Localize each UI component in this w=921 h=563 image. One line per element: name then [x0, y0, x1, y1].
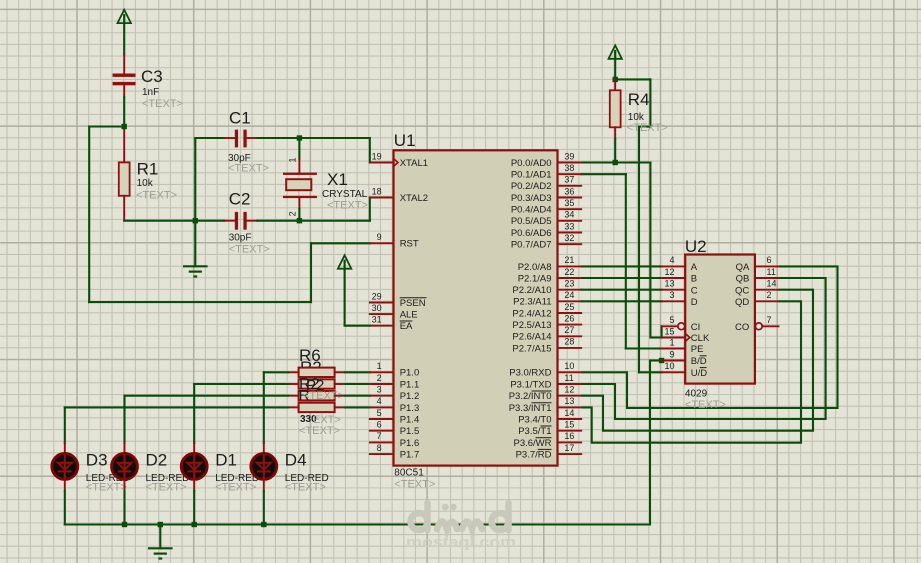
U1 pin 6 P1.5: [370, 420, 419, 438]
svg-text:D3: D3: [86, 450, 108, 469]
svg-text:R1: R1: [137, 160, 159, 179]
svg-text:<TEXT>: <TEXT>: [229, 244, 270, 256]
U1 pin 29 PSEN: [370, 291, 427, 309]
U1 pin 2 P1.1: [370, 373, 419, 391]
svg-text:3: 3: [377, 385, 382, 395]
wire node to left rail: [89, 125, 124, 127]
svg-text:EXT>: EXT>: [313, 414, 341, 426]
svg-text:QD: QD: [735, 297, 749, 308]
U2 pin 14 QC: [735, 279, 778, 297]
svg-text:23: 23: [564, 279, 574, 289]
svg-text:R4: R4: [628, 90, 650, 109]
wire VCC jog: [639, 126, 650, 128]
svg-text:P2.5/A13: P2.5/A13: [512, 320, 551, 331]
wire C3 to node RST: [123, 97, 125, 127]
svg-text:CRYSTAL: CRYSTAL: [322, 189, 368, 200]
wire bottom run to RST riser: [89, 301, 311, 303]
U1 pin 3 P1.2: [370, 385, 419, 403]
svg-text:P0.0/AD0: P0.0/AD0: [511, 158, 552, 169]
svg-text:P1.4: P1.4: [400, 414, 420, 425]
svg-text:30: 30: [372, 303, 382, 313]
U1 pin 15 P3.5/T1: [518, 420, 581, 438]
ic U2 4029 body: [685, 255, 755, 384]
svg-text:28: 28: [564, 337, 574, 347]
svg-text:14: 14: [564, 408, 574, 418]
wire VCC down to U/D: [638, 127, 640, 373]
wire to CLK pin: [650, 336, 661, 338]
svg-text:1: 1: [377, 361, 382, 371]
svg-text:EA: EA: [400, 321, 413, 332]
U1 pin 11 P3.1/TXD: [510, 373, 581, 391]
svg-text:P2.2/A10: P2.2/A10: [512, 285, 551, 296]
U1 pin 37 P0.2/AD2: [511, 175, 581, 193]
U1 pin 16 P3.6/WR: [513, 431, 581, 449]
ground lower: [148, 548, 173, 558]
svg-text:QC: QC: [735, 285, 749, 296]
svg-text:38: 38: [564, 163, 574, 173]
svg-text:80C51: 80C51: [394, 468, 424, 479]
wire D2 cathode: [123, 491, 125, 525]
U1 pin 13 P3.3/INT1: [509, 396, 581, 414]
wire VCC2 to EA: [345, 325, 370, 327]
power flag VCC1: [118, 10, 131, 56]
junction C2 left: [193, 218, 198, 223]
wire P1.0 net to D4: [264, 371, 288, 373]
svg-text:13: 13: [664, 279, 674, 289]
wire P2.0 to A: [581, 265, 661, 267]
svg-text:<TEXT>: <TEXT>: [327, 200, 368, 212]
wire C1-C2 left tie: [194, 138, 196, 221]
wire P3.2 to QC: [581, 290, 813, 431]
U1 pin 1 P1.0: [370, 361, 419, 379]
svg-text:27: 27: [564, 325, 574, 335]
svg-text:29: 29: [372, 291, 382, 301]
svg-text:1: 1: [669, 337, 674, 347]
svg-text:P0.6/AD6: P0.6/AD6: [511, 228, 552, 239]
svg-text:8: 8: [377, 443, 382, 453]
wire P2.2 to C: [581, 289, 661, 291]
U1 pin 18 XTAL2: [370, 186, 428, 204]
wire to RST pin: [311, 242, 370, 244]
led D2: [112, 443, 138, 491]
svg-text:B: B: [691, 274, 697, 285]
U2 pin 13 C: [662, 279, 698, 297]
svg-text:PSEN: PSEN: [400, 298, 426, 309]
svg-text:9: 9: [669, 349, 674, 359]
svg-text:P3.2/INT0: P3.2/INT0: [509, 391, 552, 402]
wire left rail down: [88, 127, 90, 303]
svg-text:2: 2: [288, 211, 298, 216]
svg-text:<TEXT>: <TEXT>: [142, 98, 183, 110]
U1 pin 17 P3.7/RD: [516, 443, 582, 461]
U1 pin 26 P2.5/A13: [512, 313, 581, 331]
svg-text:C2: C2: [229, 190, 251, 209]
svg-text:P3.3/INT1: P3.3/INT1: [509, 403, 552, 414]
svg-text:2: 2: [377, 373, 382, 383]
svg-text:7: 7: [377, 431, 382, 441]
wire XTAL2 bottom run: [299, 220, 369, 222]
svg-text:34: 34: [564, 210, 574, 220]
svg-text:CLK: CLK: [691, 333, 710, 344]
svg-text:P0.2/AD2: P0.2/AD2: [511, 181, 552, 192]
svg-text:P1.2: P1.2: [400, 391, 420, 402]
svg-text:P1.0: P1.0: [400, 368, 420, 379]
svg-text:U1: U1: [394, 131, 416, 150]
svg-text:P1.7: P1.7: [400, 450, 420, 461]
junction R4 bottom P0.0: [613, 160, 618, 165]
wire P3.1 to QB: [581, 278, 825, 419]
power flag VCC3: [609, 45, 622, 79]
U1 pin 32 P0.7/AD7: [511, 233, 581, 251]
svg-text:U/D: U/D: [691, 368, 708, 379]
svg-text:B/D: B/D: [691, 356, 707, 367]
led D1: [181, 443, 207, 491]
wire P0.1 down to PE: [625, 174, 627, 348]
wire drop to D1: [193, 384, 195, 443]
svg-text:6: 6: [767, 255, 772, 265]
ground upper: [183, 266, 208, 276]
svg-text:17: 17: [564, 443, 574, 453]
U1 pin 22 P2.1/A9: [518, 267, 582, 285]
wire XTAL1 drop: [369, 138, 371, 163]
svg-text:<TEXT>: <TEXT>: [627, 122, 668, 134]
U2 pin 7 CO: [735, 315, 778, 333]
U1 pin 35 P0.4/AD4: [511, 198, 581, 216]
svg-text:6: 6: [377, 420, 382, 430]
svg-text:U2: U2: [685, 237, 707, 256]
svg-text:2: 2: [767, 290, 772, 300]
U2 pin 12 B: [662, 267, 698, 285]
svg-text:35: 35: [564, 198, 574, 208]
svg-text:P2.1/A9: P2.1/A9: [518, 273, 552, 284]
wire VCC rail right: [615, 78, 650, 80]
U2 pin 4 A: [662, 255, 698, 273]
U1 pin 38 P0.1/AD1: [511, 163, 581, 181]
svg-text:P0.3/AD3: P0.3/AD3: [511, 193, 552, 204]
svg-text:<TEXT>: <TEXT>: [228, 163, 269, 175]
svg-text:P3.5/T1: P3.5/T1: [518, 426, 551, 437]
power flag VCC2: [338, 255, 351, 325]
svg-text:<TEXT>: <TEXT>: [299, 425, 340, 437]
wire P2.1 to B: [581, 277, 661, 279]
svg-text:30pF: 30pF: [229, 233, 252, 244]
svg-text:QB: QB: [736, 274, 750, 285]
svg-text:11: 11: [767, 267, 776, 277]
wire to PE pin: [626, 347, 662, 349]
svg-text:31: 31: [372, 315, 382, 325]
svg-text:15: 15: [664, 326, 674, 336]
svg-text:P3.0/RXD: P3.0/RXD: [509, 368, 551, 379]
svg-text:15: 15: [564, 420, 574, 430]
svg-text:36: 36: [564, 186, 574, 196]
svg-text:P2.3/A11: P2.3/A11: [513, 297, 551, 308]
wire drop to D3: [64, 407, 66, 443]
ic U1 80C51 body: [394, 150, 558, 465]
svg-text:ALE: ALE: [400, 310, 418, 321]
svg-text:1: 1: [288, 157, 298, 162]
svg-text:P2.7/A15: P2.7/A15: [512, 343, 551, 354]
wire P1.1 net to D1: [194, 383, 288, 385]
resistor network R6 boxes: [299, 368, 335, 413]
svg-text:16: 16: [564, 431, 574, 441]
wire drop to D4: [263, 372, 265, 443]
capacitor C2: [195, 212, 299, 230]
wire P0.0 run: [581, 161, 650, 163]
junction R4 top: [613, 77, 618, 82]
svg-text:XTAL2: XTAL2: [400, 193, 428, 204]
wire VCC rail down: [649, 79, 651, 126]
svg-text:P2.6/A14: P2.6/A14: [512, 332, 551, 343]
resistor R1: [119, 127, 130, 221]
svg-text:10: 10: [564, 361, 574, 371]
junction crystal top: [297, 135, 302, 140]
U2 pin 15 CLK: [662, 326, 710, 344]
U1 pin 19 XTAL1: [370, 151, 428, 169]
svg-text:P2.0/A8: P2.0/A8: [518, 262, 552, 273]
wires R6 pins: [288, 372, 370, 407]
wire bus riser to B/D: [649, 361, 651, 525]
svg-text:P3.4/T0: P3.4/T0: [518, 414, 551, 425]
svg-text:<TEXT>: <TEXT>: [394, 479, 435, 491]
wire P1.2 net to D2: [125, 395, 288, 397]
wire CI drop: [661, 326, 663, 337]
U2 pin 5 CI: [662, 315, 701, 333]
wire P3.0 to QA: [581, 266, 837, 408]
svg-text:25: 25: [564, 302, 574, 312]
wire P1.3 net to D3: [65, 406, 288, 408]
svg-text:D2: D2: [146, 450, 168, 469]
svg-text:PE: PE: [691, 344, 704, 355]
U1 pin 33 P0.6/AD6: [511, 221, 581, 239]
svg-text:P3.6/WR: P3.6/WR: [513, 438, 551, 449]
U2 pin 3 D: [662, 290, 698, 308]
U1 pin 30 ALE: [370, 303, 418, 321]
U1 pin 24 P2.3/A11: [513, 290, 581, 308]
wire P3.3 to QD: [581, 301, 801, 442]
U1 pin 31 EA: [370, 315, 413, 333]
svg-text:CO: CO: [735, 322, 749, 333]
junction bus D2: [122, 522, 127, 527]
capacitor C1: [195, 130, 299, 148]
U1 pin 10 P3.0/RXD: [509, 361, 581, 379]
svg-text:<TEXT>: <TEXT>: [215, 482, 256, 494]
U1 pin 34 P0.5/AD5: [511, 210, 581, 228]
svg-text:9: 9: [377, 232, 382, 242]
svg-text:19: 19: [372, 151, 382, 161]
junction B/D: [659, 358, 664, 363]
wire drop to D2: [123, 396, 125, 443]
U1 pin 27 P2.6/A14: [512, 325, 581, 343]
U1 pin 9 RST: [370, 232, 419, 250]
U1 pin 23 P2.2/A10: [512, 279, 581, 297]
svg-text:D: D: [691, 297, 698, 308]
resistor R4: [610, 79, 621, 139]
svg-text:P1.6: P1.6: [400, 438, 420, 449]
svg-text:5: 5: [377, 408, 382, 418]
wire ground stem lower: [159, 525, 161, 549]
svg-text:4: 4: [669, 255, 674, 265]
svg-text:C3: C3: [141, 67, 163, 86]
svg-text:3: 3: [669, 290, 674, 300]
svg-text:39: 39: [564, 151, 574, 161]
svg-text:P0.5/AD5: P0.5/AD5: [511, 216, 552, 227]
svg-text:24: 24: [564, 290, 574, 300]
wire RST riser: [310, 243, 312, 302]
wire R4 bottom: [614, 139, 616, 163]
U2 pin 6 QA: [736, 255, 779, 273]
svg-text:<TEXT>: <TEXT>: [146, 482, 187, 494]
wire XTAL1 top run: [299, 137, 369, 139]
svg-text:P1.1: P1.1: [400, 379, 420, 390]
crystal X1: [283, 138, 317, 221]
svg-text:mostaql.com: mostaql.com: [406, 534, 516, 551]
svg-text:21: 21: [564, 255, 574, 265]
wire P0.1 run: [581, 173, 626, 175]
U1 pin 4 P1.3: [370, 396, 419, 414]
wire D1 cathode: [193, 491, 195, 525]
U1 pin 36 P0.3/AD3: [511, 186, 581, 204]
svg-text:X1: X1: [327, 170, 348, 189]
svg-text:C1: C1: [229, 109, 251, 128]
svg-text:10k: 10k: [137, 178, 154, 189]
U1 pin 39 P0.0/AD0: [511, 151, 581, 169]
svg-text:C: C: [691, 285, 698, 296]
svg-text:10: 10: [664, 361, 674, 371]
svg-text:A: A: [691, 262, 698, 273]
junction bus D4: [261, 522, 266, 527]
U1 pin 28 P2.7/A15: [512, 337, 581, 355]
wire D4 cathode: [263, 491, 265, 525]
svg-text:P0.4/AD4: P0.4/AD4: [511, 205, 552, 216]
svg-text:4029: 4029: [685, 389, 708, 400]
wire VCC to U/D pin: [639, 371, 662, 373]
svg-text:QA: QA: [736, 262, 750, 273]
svg-text:18: 18: [372, 186, 382, 196]
U1 pin 25 P2.4/A12: [512, 302, 581, 320]
junction bus D1: [192, 522, 197, 527]
wire R1 bottom to C-junction: [124, 220, 195, 222]
svg-text:37: 37: [564, 175, 574, 185]
svg-text:7: 7: [767, 315, 772, 325]
U1 pin 5 P1.4: [370, 408, 419, 426]
U2 pin 1 PE: [662, 337, 704, 355]
svg-text:CI: CI: [691, 322, 701, 333]
wire D3 cathode: [64, 491, 66, 525]
junction crystal bottom: [297, 218, 302, 223]
wire XTAL2 rise: [369, 198, 371, 221]
svg-text:14: 14: [767, 279, 777, 289]
wire P2.3 to D: [581, 300, 661, 302]
U2 pin 10 U/D: [662, 361, 708, 379]
svg-text:P3.7/RD: P3.7/RD: [516, 450, 552, 461]
junction bus ground: [158, 522, 163, 527]
U1 pin 8 P1.7: [370, 443, 419, 461]
svg-text:XTAL1: XTAL1: [400, 158, 428, 169]
U1 pin 21 P2.0/A8: [518, 255, 582, 273]
svg-text:<TEXT>: <TEXT>: [86, 482, 127, 494]
U1 pin 7 P1.6: [370, 431, 419, 449]
svg-text:D4: D4: [285, 450, 307, 469]
svg-text:<TEXT>: <TEXT>: [685, 399, 726, 411]
led D3: [52, 443, 78, 491]
svg-text:P1.5: P1.5: [400, 426, 420, 437]
svg-text:1nF: 1nF: [142, 87, 159, 98]
svg-text:12: 12: [664, 267, 674, 277]
U2 pin 9 B/D: [662, 349, 707, 367]
svg-text:P0.1/AD1: P0.1/AD1: [511, 170, 552, 181]
svg-text:RST: RST: [400, 239, 419, 250]
wire cathode bus: [65, 523, 650, 525]
svg-text:5: 5: [669, 315, 674, 325]
svg-text:<TEXT>: <TEXT>: [136, 189, 177, 201]
watermark logo: [411, 503, 509, 530]
svg-text:P3.1/TXD: P3.1/TXD: [510, 379, 551, 390]
svg-text:26: 26: [564, 313, 574, 323]
svg-text:22: 22: [564, 267, 574, 277]
wire to B/D pin: [650, 359, 662, 361]
wire ground stem upper: [194, 221, 196, 267]
junction C3-R1-RST: [122, 124, 127, 129]
led D4: [251, 443, 277, 491]
U2 pin 11 QB: [736, 267, 779, 285]
capacitor C3: [113, 56, 136, 98]
svg-text:P1.3: P1.3: [400, 403, 420, 414]
svg-text:D1: D1: [215, 450, 237, 469]
svg-text:12: 12: [564, 385, 574, 395]
wire P0.0 down to CLK: [649, 163, 651, 338]
U1 pin 12 P3.2/INT0: [509, 385, 581, 403]
svg-text:P2.4/A12: P2.4/A12: [512, 308, 551, 319]
svg-text:11: 11: [564, 373, 573, 383]
svg-text:<TEXT>: <TEXT>: [285, 482, 326, 494]
svg-text:4: 4: [377, 396, 382, 406]
svg-text:P0.7/AD7: P0.7/AD7: [511, 240, 552, 251]
svg-text:33: 33: [564, 221, 574, 231]
U2 pin 2 QD: [735, 290, 778, 308]
svg-text:13: 13: [564, 396, 574, 406]
U1 pin 14 P3.4/T0: [518, 408, 581, 426]
svg-text:32: 32: [564, 233, 574, 243]
